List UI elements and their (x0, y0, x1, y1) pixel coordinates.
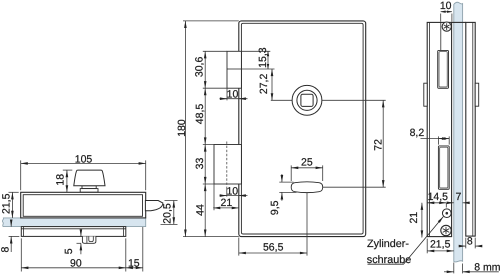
dimension 33 line (204, 145, 206, 185)
svg-text:90: 90 (70, 258, 82, 270)
lower slot inner (440, 147, 448, 188)
svg-text:44: 44 (195, 204, 207, 216)
svg-text:5: 5 (63, 248, 75, 254)
svg-text:15,3: 15,3 (257, 47, 269, 68)
dimension 20,5 extension lines (161, 201, 178, 225)
svg-text:21,5: 21,5 (1, 193, 13, 214)
dimension 10 (top) extension lines (441, 14, 452, 22)
upper mounting box (227, 51, 241, 88)
upper box mid line (227, 68, 241, 70)
latch slot oval (291, 182, 323, 193)
dimension 15 line (126, 267, 143, 269)
svg-text:20,5: 20,5 (161, 203, 173, 224)
extension lines of left chain (203, 51, 227, 184)
svg-text:8: 8 (0, 247, 12, 253)
thumb-turn knob bell (74, 170, 105, 186)
svg-text:10: 10 (227, 88, 239, 100)
upper 10 dimension: box left ext down (226, 88, 228, 100)
lock body outer (side view) (21, 192, 146, 218)
dimension 48,5 line (204, 88, 206, 144)
glass panel (side view, horizontal band) (2, 218, 145, 227)
lower fixing screw (torx head) (441, 225, 451, 235)
leader line for Zylinderschraube (368, 217, 444, 265)
dimension 10 (top) line (441, 11, 452, 13)
left clamp plate (edge view) (427, 22, 451, 236)
dimension 8 arrow tails (10, 221, 12, 227)
svg-text:7: 7 (455, 191, 461, 203)
svg-text:15: 15 (128, 257, 140, 269)
dimension 9,5 extension lines (279, 182, 296, 192)
dimension 21 line (213, 207, 239, 209)
dimension 72 extension at oval center (323, 186, 386, 188)
dimension 21,5 line (11, 192, 13, 218)
dimension 15,3 line (267, 51, 269, 69)
svg-text:21: 21 (408, 212, 420, 224)
dimension 8 mm extension lines (454, 263, 463, 274)
dimension 8 (right) extension lines (466, 238, 475, 249)
lower 10 dimension line with outside arrows (220, 195, 248, 197)
extension from dashed line to lower 10 dim (226, 188, 228, 197)
svg-text:9,5: 9,5 (269, 200, 281, 215)
right plate inner seam (472, 22, 474, 236)
dimension 5 extension line (77, 242, 82, 244)
svg-text:27,2: 27,2 (258, 74, 270, 95)
svg-text:56,5: 56,5 (263, 241, 284, 253)
dimension 18 line (66, 170, 68, 192)
lower plate seam line (21, 228, 126, 230)
svg-text:10: 10 (226, 185, 238, 197)
set-screw tab below plate (82, 236, 96, 243)
spindle inner circle (297, 90, 317, 110)
lower plate end seams (24, 227, 124, 237)
svg-text:Zylinder-: Zylinder- (367, 238, 409, 250)
dimension 105 extension lines (21, 160, 146, 190)
knob neck (82, 186, 96, 189)
dimension 25 extension lines (291, 165, 323, 181)
dimension 20,5 line (173, 201, 175, 225)
dimension 21,5 extension line (9, 191, 19, 193)
lower mounting box (214, 145, 241, 185)
dimension 9,5 arrow tails (281, 174, 283, 182)
spindle horizontal centerline (left segment) (271, 99, 292, 101)
svg-text:33: 33 (194, 158, 206, 170)
cylinder screw (dot head) (442, 209, 451, 218)
dimension 27,2 line (271, 69, 273, 100)
upper slot inner (439, 52, 447, 87)
svg-text:schraube: schraube (367, 254, 411, 266)
15,3 / 27,2 shared mid extension (241, 68, 274, 70)
svg-text:8: 8 (467, 236, 473, 248)
svg-text:21: 21 (221, 197, 233, 209)
tab notch (89, 236, 94, 241)
svg-text:105: 105 (75, 153, 93, 165)
glass panel (edge view, vertical band) (454, 2, 463, 262)
extension of case bottom edge to the left (183, 236, 239, 238)
left plate groove edge (440, 22, 442, 50)
dimension 7 arrow tails (449, 202, 454, 204)
lock body inner seam (23, 195, 142, 217)
dimension 5 arrow tails (80, 232, 82, 237)
svg-text:180: 180 (176, 119, 188, 137)
upper 10 dim line with outside arrows (220, 98, 248, 100)
dimension 18 extension line (63, 169, 73, 171)
dimension 21,5 line (427, 250, 454, 252)
svg-text:72: 72 (373, 139, 385, 151)
svg-text:8,2: 8,2 (410, 127, 425, 139)
dimension 30,6 line (204, 51, 206, 88)
dimension 8,2 line with arrows (421, 138, 450, 140)
vertical line from oval center to bottom dim (306, 193, 308, 256)
dimension 72 line (382, 100, 384, 187)
lock top edge line crossing the glass (452, 21, 466, 23)
dimension 56,5 line (239, 252, 307, 254)
dashed screw axis line (226, 142, 228, 188)
spindle square hole (301, 94, 313, 106)
dimension 21 line (421, 203, 423, 238)
spindle horizontal centerline (right segment) (322, 99, 386, 101)
spindle outer circle (292, 85, 322, 115)
dimension 8,2 extension lines (438, 136, 449, 144)
right side tab (475, 83, 479, 106)
latch bolt (side view) (145, 201, 163, 211)
left side tab (424, 83, 427, 106)
dimension 14,5 line (427, 202, 446, 204)
dimension 21,5 extension line (426, 239, 428, 254)
extension lines for 90 and 15 (21, 227, 143, 272)
svg-text:18: 18 (55, 174, 67, 186)
lower slot outer (438, 146, 449, 189)
svg-text:25: 25 (301, 157, 313, 169)
dimension 8 mm line with outside arrows (444, 271, 454, 273)
upper slot outer (438, 50, 449, 88)
svg-text:21,5: 21,5 (430, 238, 451, 250)
extension of case top edge to the left (183, 20, 239, 22)
ext from screw center x down (445, 203, 447, 208)
right clamp plate (edge view) (466, 22, 475, 236)
dimension 8 (right) line with outside arrows (461, 245, 466, 247)
svg-text:10: 10 (440, 0, 452, 12)
box2 left ext down for 21 (213, 184, 215, 210)
tab inner seam (86, 236, 88, 243)
lock case outer outline (239, 21, 366, 237)
dimension 180 line (184, 21, 186, 237)
dimension 25 line (291, 167, 323, 169)
svg-text:14,5: 14,5 (428, 191, 449, 203)
svg-text:48,5: 48,5 (194, 104, 206, 125)
dimension 44 line (204, 184, 206, 237)
case left edge ext down for 56,5 (238, 238, 240, 256)
left plate inner seam (429, 22, 431, 236)
top fixing screw (torx head) (442, 22, 451, 31)
knob base plate (80, 189, 98, 193)
lower clamp plate (side view) (21, 227, 126, 237)
dimension 105 line (21, 162, 146, 164)
svg-text:8 mm: 8 mm (474, 261, 500, 273)
15,3 extension: box top right ext (241, 50, 270, 52)
svg-text:30,6: 30,6 (194, 57, 206, 78)
lock case inner outline (241, 23, 363, 234)
dimension 8 extension line (9, 235, 20, 237)
dimension 90 line (21, 267, 126, 269)
